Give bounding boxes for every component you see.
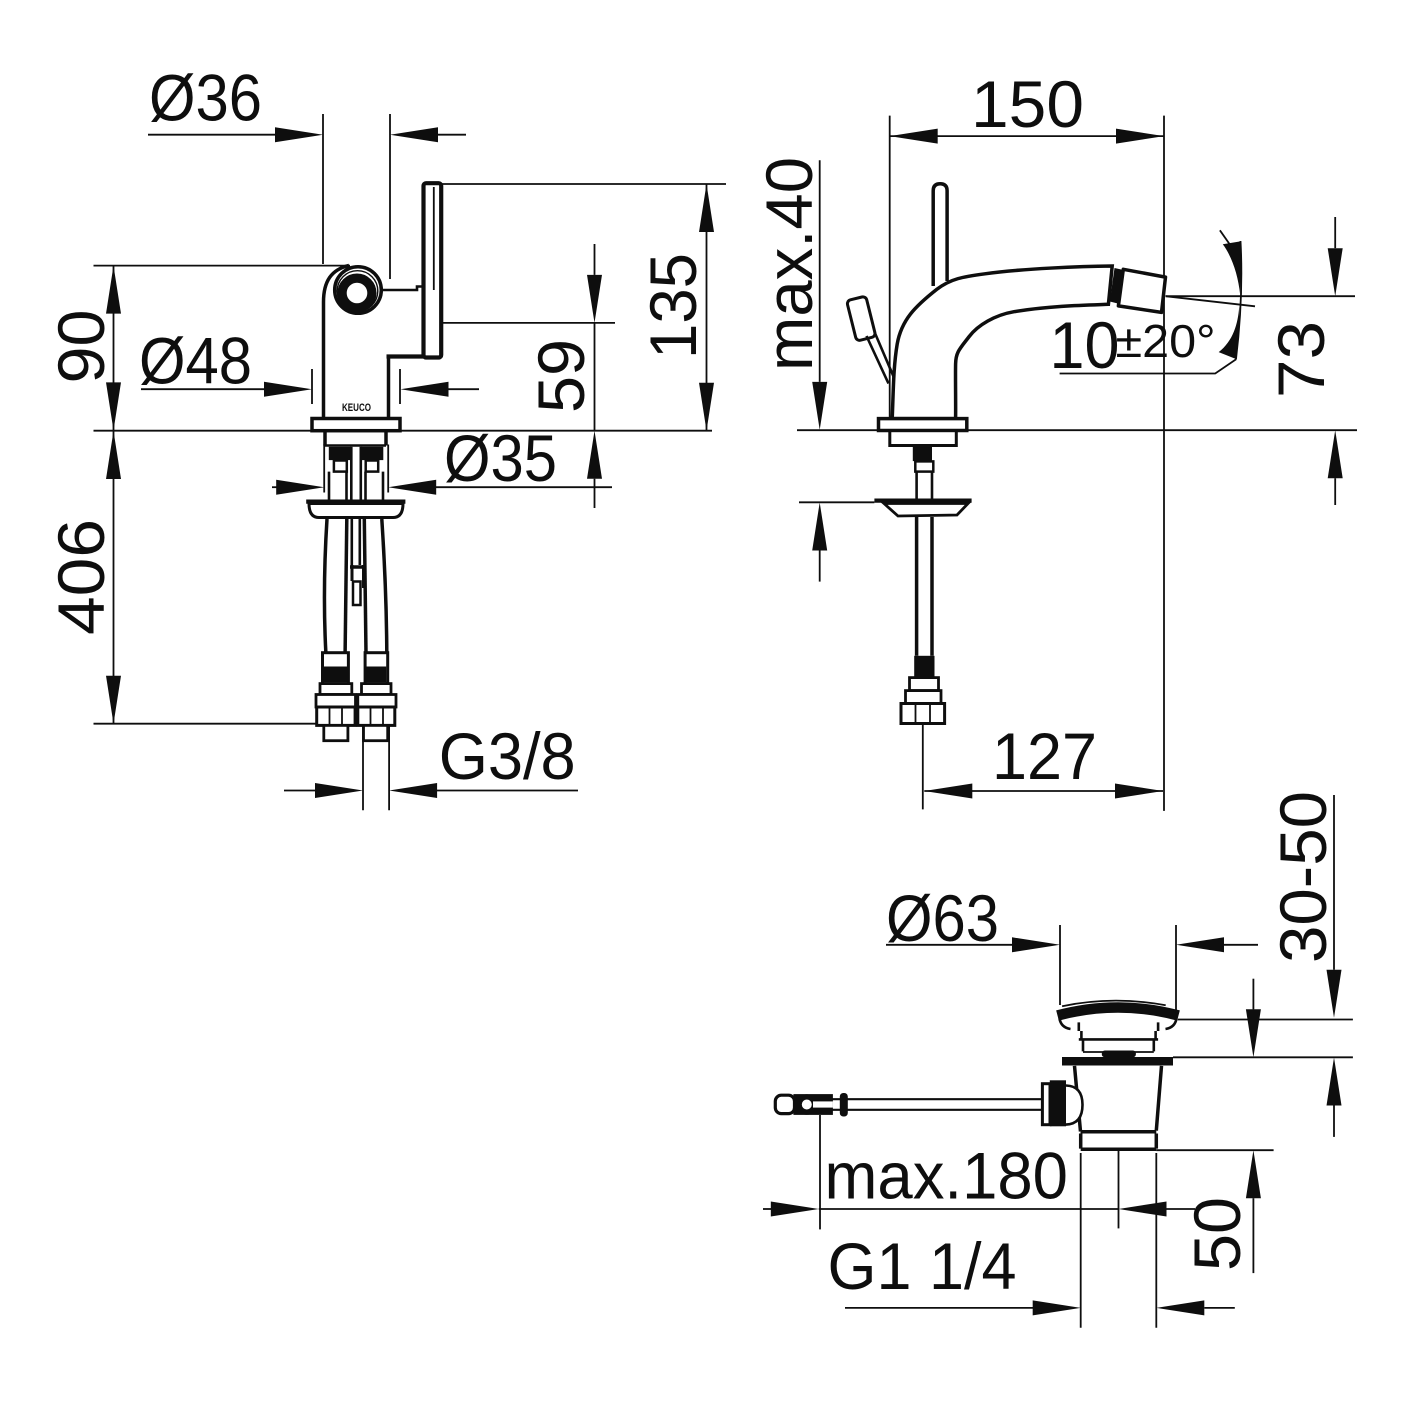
svg-text:G3/8: G3/8 <box>439 720 576 793</box>
svg-text:50: 50 <box>1181 1197 1254 1271</box>
rod-to-drain clevis <box>1042 1084 1050 1125</box>
drain cap rim <box>1058 1008 1179 1016</box>
drain cap dome <box>1062 1001 1166 1007</box>
front view: 90-dim top reference line <box>94 265 351 267</box>
drain body <box>1075 1066 1162 1132</box>
faucet body (front) left edge <box>324 265 350 418</box>
rod ball joint <box>799 1097 815 1113</box>
svg-text:30-50: 30-50 <box>1267 791 1340 963</box>
angle arc top tail <box>1220 230 1230 244</box>
hose braid fitting (side) <box>914 656 934 678</box>
svg-text:Ø36: Ø36 <box>149 62 262 135</box>
supply hose (side) <box>917 517 932 656</box>
lever grip (side) <box>933 184 947 286</box>
dimension O63 line + arrows <box>886 944 1015 946</box>
dimension 90 arrows <box>106 266 121 314</box>
dimension 127 line + arrows <box>924 790 1163 792</box>
dimension O36 line + arrows <box>148 134 278 136</box>
50 reference line (tailpipe end) <box>1156 1149 1273 1151</box>
dimension O35 line + arrows <box>272 486 277 488</box>
hose sections above washer <box>329 472 383 501</box>
dimension O35 extension lines <box>324 445 388 493</box>
svg-text:±20°: ±20° <box>1116 315 1216 367</box>
central rod channel <box>351 447 361 501</box>
svg-text:Ø35: Ø35 <box>444 422 557 495</box>
svg-text:max.40: max.40 <box>753 157 826 371</box>
svg-text:90: 90 <box>45 310 118 384</box>
faucet body (front) right edge <box>387 357 391 419</box>
svg-text:59: 59 <box>525 339 598 413</box>
collar below flange (side) <box>890 431 957 446</box>
svg-text:10: 10 <box>1050 309 1120 382</box>
side view spout outline top <box>892 266 1112 419</box>
drain center line <box>1118 1151 1120 1228</box>
dimension 150 line + arrows <box>890 135 1164 137</box>
hose threaded tails <box>324 725 348 740</box>
hose hex nut (side) <box>901 704 945 724</box>
dimension 59 reference line <box>443 322 615 324</box>
aerator tip piece <box>1118 269 1165 312</box>
svg-text:Ø48: Ø48 <box>139 325 252 398</box>
hose center line (side) <box>922 725 924 810</box>
drain tailpipe <box>1081 1134 1157 1149</box>
svg-text:150: 150 <box>971 68 1084 141</box>
escutcheon flange (side) <box>879 419 967 431</box>
pop-up rod stem <box>867 332 894 384</box>
hose end steps <box>320 684 352 695</box>
dimension O48 line + arrows <box>141 388 267 390</box>
rod clevis <box>350 565 366 569</box>
pop-up rod knob <box>847 296 876 341</box>
dimension 150 extension lines <box>890 116 1164 811</box>
30-50 top reference line <box>1178 1019 1353 1021</box>
supply hoses (front) <box>324 519 327 654</box>
lever grip inner line <box>433 187 435 290</box>
pop-up horizontal rod <box>795 1099 1042 1110</box>
angle leg 10deg <box>1166 296 1256 306</box>
dimension 135 reference line (handle top) <box>441 183 726 185</box>
angle arc <box>1236 241 1241 359</box>
dimension 73 reference line / angle leg <box>1166 295 1356 297</box>
svg-text:max.180: max.180 <box>825 1140 1069 1213</box>
hose nuts below shank <box>334 461 347 472</box>
lever grip (front) <box>424 183 442 357</box>
svg-text:406: 406 <box>45 519 118 635</box>
hose braid end fittings <box>323 653 349 684</box>
drain cap neck <box>1079 1022 1158 1039</box>
drain flange plate <box>1062 1057 1173 1066</box>
dimension 406 arrows <box>106 431 121 479</box>
mounting washer (front) <box>306 500 405 504</box>
svg-text:G1 1/4: G1 1/4 <box>828 1230 1017 1303</box>
shank black bands <box>329 447 351 460</box>
angle arrowheads <box>1223 241 1241 295</box>
dimension O48 extension ticks <box>312 369 400 404</box>
dark shank block (side) <box>913 447 932 462</box>
front view: 406-dim bottom reference line <box>94 723 317 725</box>
dimension G3/8 extension lines <box>363 725 389 810</box>
rod clamp block <box>793 1094 833 1115</box>
shank collar below flange <box>325 431 386 446</box>
svg-text:135: 135 <box>637 253 710 359</box>
dimension 59 line + arrows <box>594 244 596 275</box>
dimension G3/8 line + arrows <box>284 790 316 792</box>
svg-text:73: 73 <box>1265 321 1338 398</box>
dimension O63 extension lines <box>1060 925 1176 1015</box>
hose upper (side) <box>917 472 932 500</box>
hose hex nuts <box>317 707 355 725</box>
dimension 135 line + arrows <box>706 184 708 431</box>
svg-text:127: 127 <box>992 720 1097 793</box>
dimension max.180 line + arrows <box>763 1208 772 1210</box>
pivot middle thin circle <box>337 271 378 312</box>
mounting washer (side) <box>874 499 971 503</box>
dimension 50 line + arrows <box>1252 979 1254 1010</box>
rod left end cap <box>775 1095 794 1113</box>
dimension 30-50 line + arrows <box>1333 795 1335 970</box>
lever arm bottom edge <box>387 354 442 358</box>
30-50 lower reference line <box>1173 1056 1353 1058</box>
dimension max.40 line + arrows <box>819 160 821 382</box>
small box (side) <box>915 461 933 471</box>
dimension O36 extension lines <box>323 114 390 279</box>
lever arm top edge <box>381 287 424 291</box>
dimension 90/406 vertical dimension line <box>113 266 115 724</box>
side view: mounting surface line <box>797 429 1357 431</box>
central pull rod below washer <box>352 518 360 565</box>
pivot outer circle <box>335 267 382 314</box>
svg-text:KEUCO: KEUCO <box>342 402 371 414</box>
max.180 left extension line <box>819 1115 821 1229</box>
angle leader line <box>1060 359 1237 373</box>
pivot dark ring <box>342 278 372 308</box>
dimension G1 1/4 extension lines <box>1081 1153 1157 1328</box>
rod nub <box>840 1093 848 1117</box>
dimension G1 1/4 line + arrows <box>845 1307 1034 1309</box>
escutcheon flange (front) <box>312 419 400 431</box>
front view: mounting surface line <box>94 430 713 432</box>
dimension 73 line + arrows <box>1334 217 1336 248</box>
spout joint dark ring <box>1110 268 1124 304</box>
